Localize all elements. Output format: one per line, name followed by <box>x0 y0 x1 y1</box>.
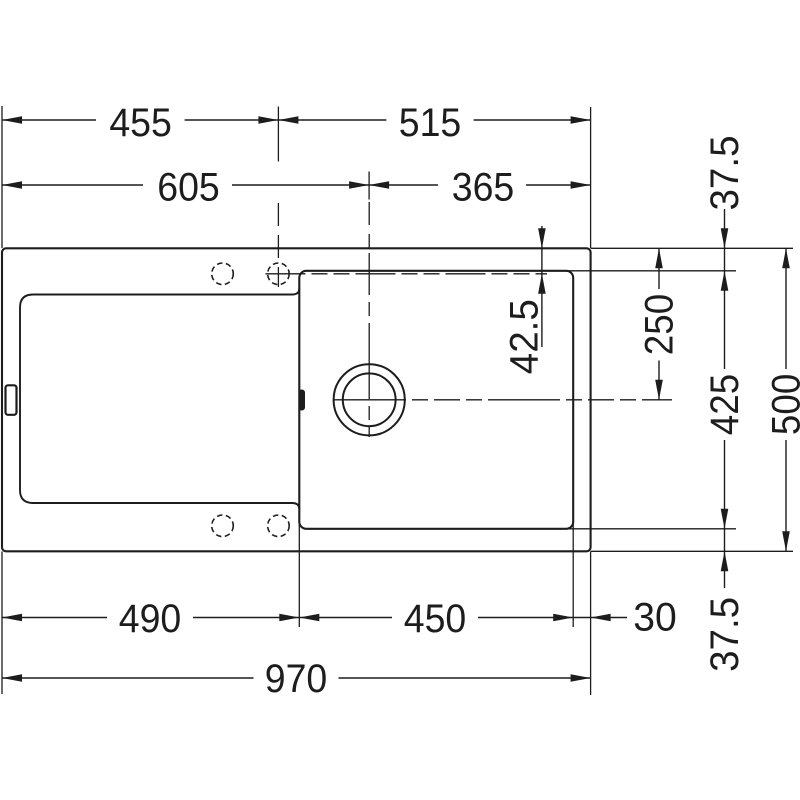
drainboard inner outline <box>20 289 299 510</box>
extension line sink bottom right <box>591 550 793 552</box>
sink outer outline <box>2 248 591 551</box>
svg-text:455: 455 <box>109 101 172 145</box>
arrow 37.5bottom up <box>721 551 729 571</box>
arrow 455 right <box>258 116 278 124</box>
dimension row1 line 515 <box>474 119 591 121</box>
faucet hole bottom-left <box>212 515 234 537</box>
overflow tab on bowl left edge <box>299 390 305 410</box>
svg-text:365: 365 <box>452 165 515 209</box>
arrow 425 top up <box>721 271 729 291</box>
dimension line 425 lower + 37.5bottom <box>724 440 726 588</box>
faucet hole column dashed line <box>277 203 279 287</box>
arrow 455 left <box>2 116 22 124</box>
faucet hole bottom-right <box>268 515 290 537</box>
svg-text:37.5: 37.5 <box>703 597 747 672</box>
svg-text:450: 450 <box>404 597 467 641</box>
drain horizontal centerline <box>334 399 672 401</box>
arrow 490 left <box>2 614 22 622</box>
faucet hole top-left <box>212 263 234 285</box>
dimension line 250 <box>658 248 660 289</box>
arrow 500 bottom <box>782 531 790 551</box>
extension line sink left above <box>1 106 3 248</box>
svg-text:515: 515 <box>399 101 462 145</box>
arrow 515 left <box>278 116 298 124</box>
dimension line 490 <box>2 617 107 619</box>
arrow 970 right <box>571 674 591 682</box>
arrow 490 right <box>279 614 299 622</box>
arrow 37.5top down <box>721 228 729 248</box>
dimension line 42.5 <box>541 226 543 347</box>
faucet hole centerline horizontal <box>266 273 548 275</box>
svg-text:490: 490 <box>119 597 182 641</box>
dimension line 970 <box>2 677 254 679</box>
arrow 42.5 up <box>538 274 546 294</box>
arrow 605 left <box>2 181 22 189</box>
left rim slot rectangle <box>6 385 17 415</box>
dimension line 500 <box>785 248 787 369</box>
arrow 450 left <box>299 614 319 622</box>
arrow 250 bottom <box>655 380 663 400</box>
extension line bowl left below <box>298 519 300 627</box>
arrow 365 right <box>571 181 591 189</box>
arrow 365 left <box>369 181 389 189</box>
dimension row2 line 605 <box>2 184 143 186</box>
drain vertical centerline <box>368 202 370 248</box>
extension line bowl top right <box>567 270 736 272</box>
svg-text:37.5: 37.5 <box>703 136 747 211</box>
extension line sink right above <box>590 107 592 248</box>
arrow 450 right <box>553 614 573 622</box>
arrow 30 right outside <box>591 614 611 622</box>
svg-text:970: 970 <box>265 657 328 701</box>
svg-text:500: 500 <box>765 374 800 435</box>
arrow 500 top <box>782 248 790 268</box>
dimension line 37.5top + 425 upper <box>724 209 726 369</box>
dimension row2 line 365 <box>526 184 591 186</box>
svg-text:425: 425 <box>703 374 747 435</box>
extension line drain column top <box>368 172 370 200</box>
svg-text:42.5: 42.5 <box>503 299 547 374</box>
arrow 605 right <box>349 181 369 189</box>
drain inner circle <box>343 373 396 426</box>
extension line bowl right below <box>572 519 574 627</box>
arrow 425 bottom down <box>721 509 729 529</box>
dimension row1 line 455 <box>2 119 96 121</box>
svg-text:30: 30 <box>633 596 677 640</box>
extension line sink right below <box>590 552 592 696</box>
extension line sink left below <box>1 552 3 695</box>
extension line sink top right <box>591 247 793 249</box>
svg-text:605: 605 <box>157 165 220 209</box>
svg-text:250: 250 <box>638 294 682 355</box>
arrow 970 left <box>2 674 22 682</box>
arrow 515 right <box>571 116 591 124</box>
faucet hole top-right <box>268 263 290 285</box>
dimension line 450 and 30 <box>478 617 627 619</box>
extension line hole column top <box>277 107 279 162</box>
extension line bowl bottom right <box>567 528 736 530</box>
bowl outline <box>299 271 573 529</box>
arrow 250 top <box>655 248 663 268</box>
arrow 42.5 down <box>538 228 546 248</box>
drain outer circle <box>334 364 405 435</box>
